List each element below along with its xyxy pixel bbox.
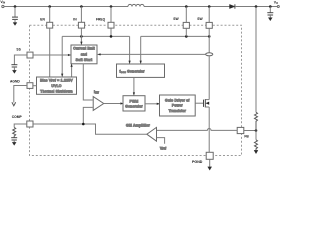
wire fb net with hop — [156, 128, 237, 130]
wire fosc to pwm — [133, 77, 135, 92]
wire SW2 drop — [208, 7, 210, 23]
wire pgnd to ground — [209, 159, 211, 167]
arrow into pwm top — [133, 93, 135, 96]
resistor R2 — [255, 131, 257, 140]
inductor L1 — [128, 4, 144, 6]
wire pwm to gate driver — [145, 103, 157, 105]
diode D1 — [230, 4, 235, 8]
wire top rail middle — [144, 6, 230, 8]
wire comparator minus input — [83, 107, 93, 124]
node dot IN bus — [80, 35, 83, 38]
pin IN — [78, 22, 84, 28]
svg-text:FB: FB — [244, 135, 249, 139]
svg-text:FREQ: FREQ — [96, 18, 106, 22]
pin SS — [27, 52, 33, 58]
pin FB — [237, 127, 244, 133]
wire IN riser to bias — [61, 36, 63, 73]
svg-text:Thermal Shutdown: Thermal Shutdown — [40, 89, 72, 93]
wire AGND stub to bias — [33, 85, 37, 87]
wire bias to current limit riser — [71, 67, 73, 77]
resistor R1 — [255, 7, 257, 113]
wire SW2 drain line — [208, 28, 210, 53]
current sense CS — [206, 53, 213, 56]
node junction EN — [48, 5, 51, 8]
svg-text:COMP: COMP — [12, 115, 23, 119]
wire SS to cap — [14, 55, 27, 65]
node junction divider top — [255, 5, 258, 8]
wire freq bus riser to fosc — [129, 36, 131, 60]
wire top rail left — [4, 6, 128, 8]
svg-text:AGND: AGND — [10, 79, 20, 83]
ground Css — [12, 70, 16, 73]
ground PGND — [208, 167, 212, 170]
resistor R comp — [13, 127, 16, 137]
node dot FB divider — [255, 129, 258, 132]
block bias UVLO thermal — [37, 77, 77, 94]
wire IN pin to bus arrow — [80, 28, 82, 42]
svg-text:EN: EN — [40, 18, 45, 22]
wire IN drop — [80, 7, 82, 23]
ground Cin — [13, 23, 17, 26]
op-amp GM amplifier — [147, 127, 157, 141]
wire EN drop — [49, 7, 51, 23]
ground C comp — [12, 142, 16, 145]
svg-text:UVLO: UVLO — [51, 84, 61, 88]
arrow into current-limit right — [98, 54, 101, 56]
wire mosfet source to pgnd — [208, 107, 210, 152]
wire SS to current limit — [33, 54, 68, 56]
wire gm output to comp — [33, 124, 147, 134]
svg-text:GM Amplifier: GM Amplifier — [126, 124, 150, 128]
svg-text:Power: Power — [172, 104, 183, 108]
pin COMP — [27, 121, 33, 127]
arrow into current-limit left — [68, 54, 71, 56]
wire IN bus horizontal — [62, 35, 129, 37]
pin PGND — [206, 152, 213, 159]
ground AGND arrow — [12, 102, 16, 106]
svg-text:PGND: PGND — [192, 160, 203, 164]
svg-text:and: and — [81, 52, 87, 56]
capacitor C comp — [11, 137, 17, 139]
svg-text:VIN: VIN — [0, 0, 5, 5]
ground R2 — [254, 150, 258, 153]
op-amp PWM comparator — [93, 97, 104, 111]
node dot SW1 bus — [185, 35, 188, 38]
ground Cout — [268, 18, 272, 21]
node dot FREQ bus — [110, 35, 113, 38]
node junction Cout — [269, 5, 272, 8]
wire SW bus riser to fosc — [140, 36, 142, 60]
arrow into bias top (IN) — [61, 74, 63, 77]
pin SW1 — [183, 22, 189, 28]
arrow into pwm left — [121, 103, 124, 105]
svg-text:Current limit: Current limit — [73, 47, 95, 51]
svg-text:Vref: Vref — [160, 146, 167, 150]
pin FREQ — [108, 22, 114, 28]
pin SW2 — [206, 22, 212, 28]
pin EN — [47, 22, 53, 28]
wire SW1 drop — [185, 7, 187, 23]
wire current limit to comparator — [83, 64, 93, 100]
pin AGND — [27, 83, 33, 89]
node dot comp net — [82, 123, 85, 126]
svg-text:PWM: PWM — [129, 99, 138, 103]
block gate driver — [160, 95, 196, 116]
wire gm vref input — [157, 138, 165, 144]
arrow into fosc top (freq) — [129, 61, 131, 64]
node VO terminal — [277, 6, 279, 8]
node dot SW2 bus — [208, 35, 211, 38]
svg-text:SW: SW — [197, 17, 203, 21]
wire drain below sense — [208, 56, 210, 100]
node junction FREQ — [110, 5, 113, 8]
wire sense to current limit — [100, 53, 205, 55]
capacitor C-in — [14, 7, 16, 18]
wire top rail right — [235, 6, 277, 8]
transistor Q1 power MOSFET — [195, 102, 203, 104]
wire EN riser to bias — [49, 28, 51, 77]
node junction IN — [80, 5, 83, 8]
capacitor C-ss — [11, 64, 17, 66]
capacitor C-out — [269, 7, 271, 13]
svg-text:Transistor: Transistor — [169, 109, 187, 113]
block PWM generator — [123, 96, 145, 111]
arrow into fosc top (sw) — [140, 61, 142, 64]
wire SW bus — [141, 35, 210, 37]
wire comp RC — [14, 124, 27, 127]
svg-text:Generator: Generator — [125, 105, 143, 109]
IC boundary dashed — [30, 25, 242, 155]
svg-text:Soft Start: Soft Start — [76, 58, 93, 62]
block current limit and soft start — [71, 45, 97, 64]
svg-text:ISW: ISW — [94, 90, 99, 95]
node junction VIN/Cin — [14, 5, 17, 8]
block fosc generator — [117, 64, 165, 77]
wire FREQ drop — [110, 7, 112, 23]
wire SW1 below pin — [185, 28, 187, 36]
svg-text:Gate Driver of: Gate Driver of — [165, 98, 190, 102]
node junction SW1 — [185, 5, 188, 8]
arrow into current-limit bottom — [71, 64, 73, 67]
arrow into current-limit top — [81, 42, 83, 45]
arrow into gate driver left — [157, 103, 160, 105]
wire comparator output to pwm — [104, 103, 121, 105]
node junction SW2 — [208, 5, 211, 8]
svg-text:SW: SW — [173, 17, 179, 21]
wire AGND to ground — [14, 86, 27, 103]
node VIN terminal — [2, 5, 4, 7]
svg-text:Bias Vref = 1.235V: Bias Vref = 1.235V — [40, 79, 73, 83]
